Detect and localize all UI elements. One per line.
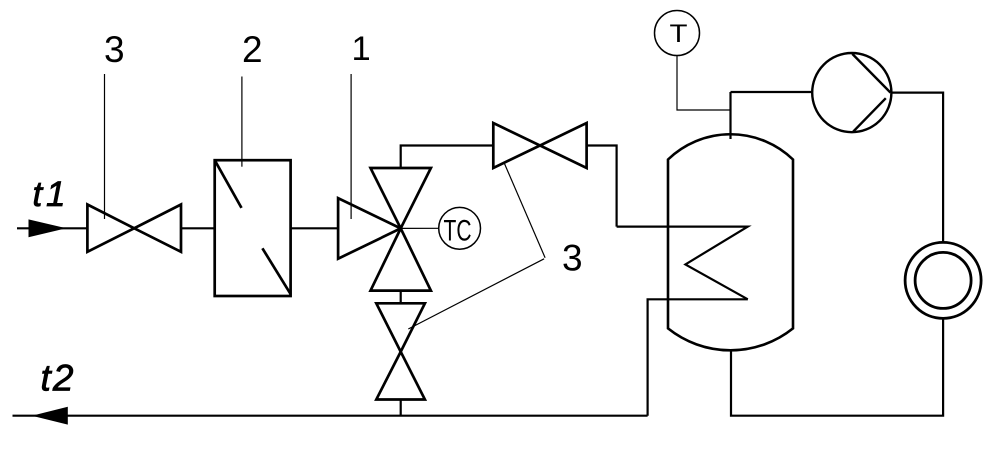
leader line for label 3 (104, 74, 106, 219)
wire return riser into coil (648, 299, 748, 415)
three-way valve V1 (338, 168, 431, 291)
wire top valve to tank coil (587, 146, 617, 227)
strainer diagonal 1 (215, 160, 242, 208)
valve V3b (top shut-off valve) (493, 123, 586, 168)
leader line 3 to top valve (504, 162, 545, 258)
wire pump to right drop (891, 93, 944, 242)
heating coil zigzag inside tank (617, 227, 748, 300)
TC link line (401, 227, 439, 229)
valve V3c (vertical shut-off valve) (400, 291, 402, 304)
svg-text:2: 2 (242, 29, 263, 70)
tank vessel (668, 134, 793, 350)
svg-text:3: 3 (562, 238, 583, 279)
T sensor link line (677, 56, 731, 111)
wire gauge down to bottom (731, 318, 943, 416)
svg-text:t1: t1 (33, 175, 66, 214)
wire strainer to 3-way valve (291, 227, 339, 229)
leader line 3 to bottom valve (408, 259, 544, 329)
leader line for label 2 (241, 77, 243, 167)
T sensor circle (655, 11, 700, 56)
tank top outlet wire (729, 92, 731, 139)
wire valve to strainer (181, 227, 215, 229)
wire vertical valve to return line (400, 400, 402, 416)
wire 3-way valve up and right to top valve (401, 146, 494, 169)
flow arrow t2 (32, 407, 68, 425)
return line t2 (13, 415, 648, 417)
flow arrow t1 (29, 219, 67, 237)
pump P1 (812, 53, 891, 132)
expansion vessel / gauge double circle (905, 242, 981, 318)
leader line for label 1 (350, 74, 352, 219)
pump impeller triangle (852, 54, 890, 93)
svg-text:3: 3 (104, 29, 125, 70)
svg-text:1: 1 (352, 30, 371, 68)
TC controller circle (439, 207, 481, 249)
svg-text:t2: t2 (41, 358, 74, 399)
strainer/device 2 rectangle (215, 160, 291, 296)
wire supply line t1 to valve (17, 227, 87, 229)
strainer diagonal 2 (262, 248, 290, 294)
svg-text:T: T (670, 20, 688, 48)
valve V3a (shut-off valve, left) (87, 205, 181, 252)
svg-text:TC: TC (444, 215, 472, 248)
wire tank top to pump (731, 91, 813, 93)
